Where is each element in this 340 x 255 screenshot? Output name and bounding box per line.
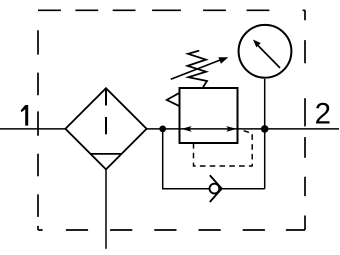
check valve seat chevron	[210, 175, 222, 202]
port label 1	[21, 105, 29, 126]
enclosure dashed border bottom edge	[38, 229, 305, 231]
regulator spring chevron left side	[167, 93, 180, 106]
filter F1 diamond body	[65, 88, 146, 169]
gauge needle arrowhead	[253, 40, 261, 48]
wire drain line	[105, 169, 107, 248]
node junction right	[261, 125, 269, 133]
node junction left	[159, 125, 166, 132]
regulator R1 body box	[180, 88, 238, 143]
pressure gauge G1 dial	[239, 25, 292, 78]
gauge needle shaft	[257, 44, 280, 68]
wire bypass branch (left vertical and bottom)	[163, 129, 265, 189]
regulator adjustment spring zigzag	[188, 51, 208, 89]
wire main flow line 1-2	[0, 128, 339, 130]
water separator chord	[91, 153, 122, 155]
filter element dashed line	[105, 88, 107, 134]
wire gauge stem / bypass right vertical	[264, 79, 266, 189]
adjustment arrowhead	[218, 57, 228, 64]
enclosure dashed border left edge	[37, 10, 39, 230]
check valve V1 ball	[210, 184, 220, 194]
regulator flow double arrowhead left	[181, 126, 191, 132]
enclosure dashed border right edge	[304, 10, 306, 230]
svg-text:2: 2	[315, 97, 331, 130]
pilot control dashed line	[194, 130, 253, 167]
enclosure dashed border top edge	[38, 9, 305, 11]
regulator flow double arrowhead right	[226, 126, 236, 132]
adjustment arrow shaft	[171, 60, 222, 80]
